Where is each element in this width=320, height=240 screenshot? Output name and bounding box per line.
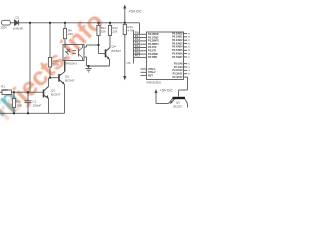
svg-text:24: 24 <box>188 74 190 76</box>
svg-text:34: 34 <box>188 50 190 52</box>
svg-text:BC547: BC547 <box>65 79 75 83</box>
svg-text:33: 33 <box>188 53 190 55</box>
svg-text:220: 220 <box>68 32 73 36</box>
svg-text:38: 38 <box>188 37 190 39</box>
svg-text:100K: 100K <box>1 88 9 92</box>
svg-text:37: 37 <box>188 40 190 42</box>
svg-text:P0.7/AD7: P0.7/AD7 <box>172 56 183 59</box>
svg-text:P1.7: P1.7 <box>135 55 141 58</box>
svg-text:22K: 22K <box>113 30 118 34</box>
svg-text:35: 35 <box>188 47 190 49</box>
svg-text:P89V51RD2: P89V51RD2 <box>147 81 162 85</box>
svg-text:SFH620A-3: SFH620A-3 <box>65 63 78 66</box>
svg-text:P2.4/A12: P2.4/A12 <box>173 76 184 79</box>
svg-text:P3.7/RD: P3.7/RD <box>148 56 157 59</box>
svg-text:1N4148: 1N4148 <box>13 26 23 30</box>
svg-text:36: 36 <box>188 43 190 45</box>
svg-text:RST: RST <box>148 74 153 77</box>
svg-text:+5V DC: +5V DC <box>160 89 174 93</box>
svg-text:220K: 220K <box>53 63 60 67</box>
svg-text:39: 39 <box>188 33 190 35</box>
svg-text:D1: D1 <box>16 16 20 20</box>
svg-text:BC547: BC547 <box>112 49 122 53</box>
svg-text:4.7K: 4.7K <box>128 29 134 33</box>
svg-text:+5V DC: +5V DC <box>128 10 142 14</box>
svg-text:100nF: 100nF <box>33 104 42 108</box>
svg-text:BC547: BC547 <box>51 93 61 97</box>
svg-text:32: 32 <box>188 57 190 59</box>
svg-text:21: 21 <box>188 63 190 65</box>
svg-text:10K: 10K <box>101 30 106 34</box>
svg-text:Q4: Q4 <box>112 45 116 49</box>
svg-text:BC557: BC557 <box>174 104 183 108</box>
svg-text:10K: 10K <box>17 104 23 108</box>
svg-text:230V: 230V <box>1 26 8 30</box>
svg-text:Ub: Ub <box>127 61 131 65</box>
svg-text:22: 22 <box>188 67 190 69</box>
svg-text:23: 23 <box>188 70 190 72</box>
